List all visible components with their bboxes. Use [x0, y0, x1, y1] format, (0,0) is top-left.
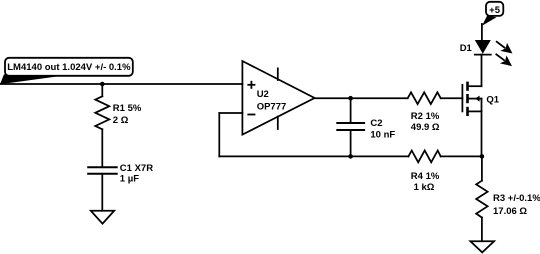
svg-text:1 kΩ: 1 kΩ	[414, 182, 435, 193]
svg-text:R4 1%: R4 1%	[411, 171, 440, 182]
svg-text:OP777: OP777	[257, 102, 287, 113]
svg-text:C2: C2	[370, 118, 382, 129]
svg-text:1 µF: 1 µF	[120, 174, 139, 185]
svg-text:+5: +5	[489, 5, 501, 16]
svg-text:C1 X7R: C1 X7R	[120, 163, 153, 174]
svg-text:49.9 Ω: 49.9 Ω	[411, 122, 440, 133]
svg-text:Q1: Q1	[486, 95, 499, 106]
svg-text:R2 1%: R2 1%	[411, 111, 440, 122]
svg-text:U2: U2	[257, 89, 269, 100]
svg-text:R1 5%: R1 5%	[113, 103, 142, 114]
svg-text:2 Ω: 2 Ω	[113, 115, 129, 126]
svg-text:LM4140 out 1.024V +/- 0.1%: LM4140 out 1.024V +/- 0.1%	[7, 62, 131, 73]
svg-text:17.06 Ω: 17.06 Ω	[493, 206, 527, 217]
svg-text:D1: D1	[460, 43, 473, 54]
svg-text:10 nF: 10 nF	[370, 130, 395, 141]
svg-text:R3 +/-0.1%: R3 +/-0.1%	[493, 193, 540, 204]
